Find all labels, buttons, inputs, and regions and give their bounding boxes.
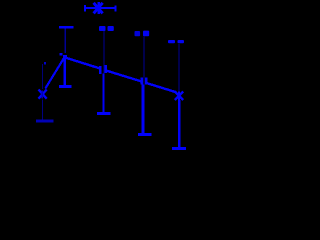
diac D2 (vertical bidirectional diode, left) [39,90,47,99]
capacitor C2 (plates in series with main diagonal wire) [141,78,148,85]
capacitor C1 (plates in series with main diagonal wire) [99,65,107,74]
diac D1 (horizontal bidirectional diode, top center) [84,2,117,14]
wire (stem below D3 to ground) [178,100,180,148]
wire (main diagonal: junction to C1) [65,58,100,69]
wire (stem below C2 to ground) [142,85,145,134]
label C2 (tiny text blobs) [135,31,150,37]
power supply bar (top left rail symbol) [59,26,74,29]
label D1 (tiny text blobs) [99,26,114,31]
wire (leader from label D3 down to D3) [178,44,179,93]
wire (leader from label C2 down to C2) [144,37,145,86]
wire (stem below C1 to ground) [102,74,104,113]
wire (junction down to ground) [64,58,66,86]
wire (stem below D2 to ground) [42,100,43,120]
wire (leader above D2 with pin dot) [42,62,46,89]
wire (leader from label D1 down to C1) [104,31,105,74]
wire (stem from supply bar down to junction) [65,29,66,53]
wire (left branch diagonal: junction to D2) [45,58,64,89]
wire (main diagonal: C2 to D3) [147,83,176,92]
ground (below C1) [97,112,111,115]
wire (main diagonal: C1 to C2) [106,71,141,82]
ground (below D2) [36,120,54,123]
node junction (main net junction) [59,53,67,59]
label D3 (tiny text dashes) [168,40,184,43]
ground (below C2) [138,133,152,136]
diac D3 (vertical bidirectional diode, right) [175,92,183,101]
ground (below junction) [59,85,72,88]
ground (below D3) [172,147,186,150]
